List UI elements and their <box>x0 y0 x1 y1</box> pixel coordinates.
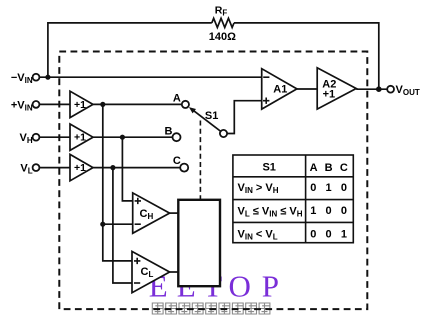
svg-text:VIN > VH: VIN > VH <box>238 182 279 195</box>
svg-text:0: 0 <box>341 182 347 194</box>
svg-text:0: 0 <box>341 205 347 217</box>
svg-text:−VIN: −VIN <box>11 72 33 85</box>
svg-text:A: A <box>310 162 318 174</box>
svg-text:+1: +1 <box>74 99 86 111</box>
svg-text:VOUT: VOUT <box>396 84 420 97</box>
svg-text:VL ≤ VIN ≤ VH: VL ≤ VIN ≤ VH <box>238 205 303 218</box>
svg-text:RF: RF <box>215 5 228 18</box>
svg-text:A: A <box>173 92 181 104</box>
svg-text:140Ω: 140Ω <box>209 31 236 43</box>
svg-text:1: 1 <box>341 228 347 240</box>
svg-text:+VIN: +VIN <box>11 99 33 112</box>
svg-text:C: C <box>173 155 181 167</box>
svg-text:C: C <box>340 162 348 174</box>
svg-text:0: 0 <box>326 205 332 217</box>
svg-text:0: 0 <box>326 228 332 240</box>
svg-text:A1: A1 <box>273 84 287 96</box>
svg-text:+1: +1 <box>74 162 86 174</box>
svg-text:S1: S1 <box>205 110 218 122</box>
svg-text:+1: +1 <box>74 132 86 144</box>
svg-text:VL: VL <box>20 163 32 176</box>
svg-text:B: B <box>325 162 333 174</box>
svg-text:1: 1 <box>326 182 332 194</box>
svg-text:0: 0 <box>310 182 316 194</box>
svg-text:S1: S1 <box>262 162 275 174</box>
svg-text:VH: VH <box>19 132 32 145</box>
svg-text:B: B <box>165 125 173 137</box>
svg-text:P: P <box>262 269 279 304</box>
svg-text:0: 0 <box>310 228 316 240</box>
svg-text:O: O <box>229 269 251 304</box>
svg-text:1: 1 <box>310 205 316 217</box>
svg-text:VIN < VL: VIN < VL <box>238 228 278 241</box>
svg-text:+1: +1 <box>323 89 336 101</box>
